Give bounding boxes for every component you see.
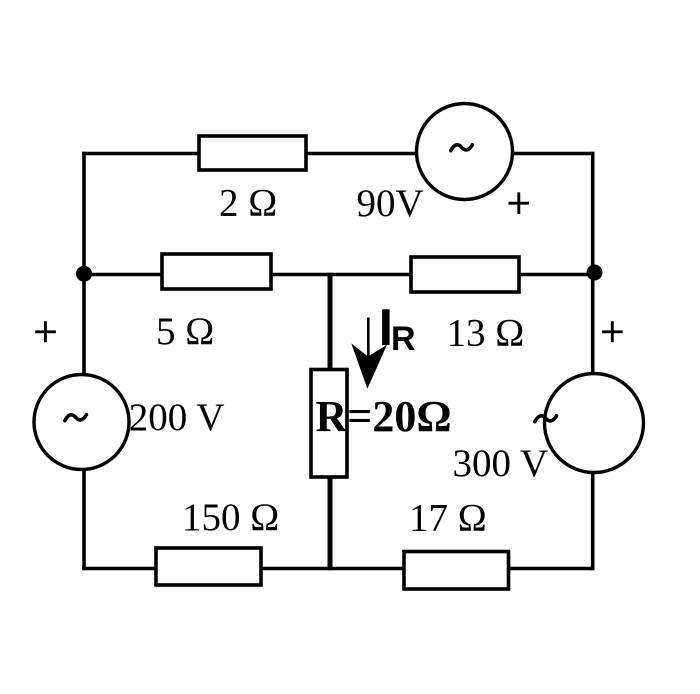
svg-text:200 V: 200 V <box>129 396 225 439</box>
svg-text:13 Ω: 13 Ω <box>447 312 525 355</box>
wire left vertical lower segment <box>82 469 86 571</box>
wire right vertical lower segment <box>591 472 595 571</box>
tilde of 90V source <box>451 145 473 151</box>
current arrow IR (head) <box>351 343 387 388</box>
resistor 13Ω (middle right) <box>411 257 519 292</box>
wire middle-right horizontal segment (13Ω to node B) <box>518 273 595 277</box>
resistor 2Ω (top) <box>199 136 306 170</box>
tilde of 200V source <box>65 415 87 421</box>
svg-text:150 Ω: 150 Ω <box>182 496 279 539</box>
svg-text:R: R <box>391 320 416 358</box>
polarity + of 200V source <box>35 321 56 342</box>
svg-text:2 Ω: 2 Ω <box>219 182 277 225</box>
svg-text:5 Ω: 5 Ω <box>156 310 214 353</box>
tilde of 300V source <box>535 416 557 422</box>
AC source 200V (left) <box>34 375 129 470</box>
wire middle-left horizontal segment (node A to 5Ω) <box>84 273 163 277</box>
AC source 90V (top) <box>417 104 513 200</box>
wire top-right horizontal segment (90V source to right corner) <box>512 152 595 156</box>
wire middle-center horizontal segment (5Ω to 13Ω through center tap) <box>270 273 412 277</box>
svg-text:300 V: 300 V <box>453 442 549 485</box>
AC source 300V (right) <box>545 374 644 473</box>
wire bottom-left horizontal segment <box>82 567 157 571</box>
polarity + of 90V source <box>509 192 530 214</box>
node A (left junction dot) <box>76 266 92 282</box>
wire top-left horizontal segment <box>82 152 200 156</box>
resistor 150Ω (bottom left) <box>156 548 261 585</box>
resistor 17Ω (bottom right) <box>404 552 509 590</box>
wire bottom-right horizontal segment <box>508 567 595 571</box>
wire top-middle horizontal segment (2Ω to 90V source) <box>305 152 417 156</box>
wire right vertical upper segment <box>591 152 595 375</box>
resistor 5Ω (middle left) <box>162 254 271 289</box>
wire center vertical lower segment (resistor R to bottom) <box>328 476 333 571</box>
wire left vertical upper segment <box>82 152 86 376</box>
svg-text:90V: 90V <box>357 182 424 225</box>
resistor R (center vertical) <box>311 370 347 478</box>
current arrow IR (shaft) <box>367 318 370 359</box>
wire center vertical upper segment (to resistor R) <box>328 273 333 371</box>
svg-text:R=20Ω: R=20Ω <box>316 392 452 441</box>
wire bottom-middle horizontal segment (150Ω to 17Ω) <box>260 567 405 571</box>
polarity + of 300V source <box>602 321 623 342</box>
svg-text:17 Ω: 17 Ω <box>409 497 487 540</box>
node B (right junction dot) <box>587 265 603 281</box>
